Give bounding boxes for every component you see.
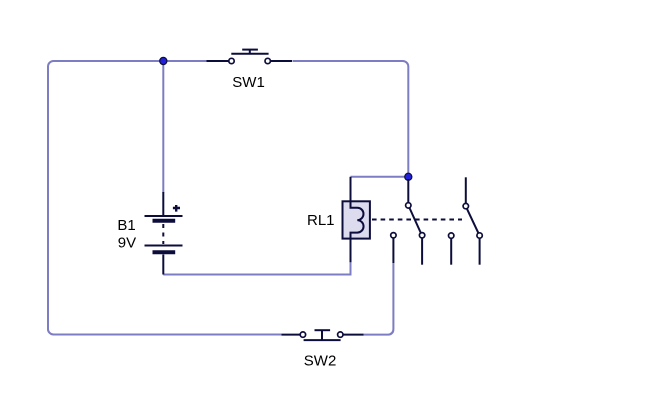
- wire relay top to junction A: [351, 176, 409, 178]
- relay RL1 coil: [343, 177, 370, 262]
- relay contact pole 2: [449, 177, 483, 264]
- relay contact pole 1: [391, 179, 425, 265]
- wire battery bottom to relay bottom: [163, 262, 350, 275]
- switch SW2: [282, 330, 364, 340]
- junction dot node A (relay/contact): [405, 173, 412, 180]
- svg-text:9V: 9V: [118, 234, 136, 251]
- mechanical linkage (dashed): [372, 219, 462, 221]
- wire contact pin to SW2 right: [364, 263, 394, 335]
- svg-text:RL1: RL1: [307, 212, 335, 229]
- svg-text:SW2: SW2: [304, 353, 337, 370]
- wire battery top lead net: [162, 61, 164, 193]
- svg-text:SW1: SW1: [232, 74, 265, 91]
- junction dot node A1 (battery tap): [160, 57, 167, 64]
- wire left loop (battery+ to SW2 left): [48, 61, 282, 335]
- svg-text:B1: B1: [117, 217, 135, 234]
- battery B1: [145, 192, 183, 275]
- wire SW1 right to junction A: [293, 61, 409, 177]
- switch SW1: [207, 50, 293, 64]
